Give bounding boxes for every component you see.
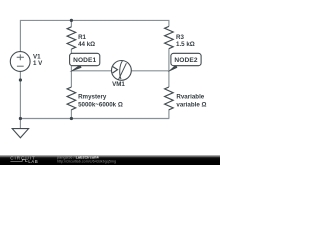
voltmeter VM1 circle bbox=[112, 61, 132, 81]
svg-text:NODE2: NODE2 bbox=[174, 57, 197, 64]
svg-text:Rmystery: Rmystery bbox=[78, 94, 107, 101]
wire top rail from V1 top across to right rail bbox=[20, 20, 169, 51]
wire Rvariable bottom to bottom rail bbox=[168, 109, 170, 118]
svg-text:Rvariable: Rvariable bbox=[176, 94, 204, 101]
wire middle right: VM1 to right rail bbox=[131, 70, 169, 72]
V1 minus sign bbox=[17, 65, 24, 67]
svg-text:http://circuitlab.com/c/643dkb: http://circuitlab.com/c/643dkbgq5mg bbox=[57, 160, 116, 164]
wire R1 top lead bbox=[70, 20, 72, 26]
VM1 needle bbox=[118, 63, 126, 80]
wire left rail below V1 to ground bbox=[19, 71, 21, 128]
wire R1 bottom to Rmystery top through NODE1 bbox=[70, 49, 72, 87]
svg-text:1 V: 1 V bbox=[33, 60, 43, 67]
junction dot below V1 bbox=[19, 78, 22, 81]
V1 plus sign bbox=[17, 54, 24, 60]
node NODE2 flag beak bbox=[168, 64, 178, 72]
wire bottom rail bbox=[20, 118, 169, 120]
svg-text:LAB: LAB bbox=[28, 159, 38, 164]
junction dot bottom left bbox=[19, 117, 22, 120]
resistor R3 zigzag bbox=[165, 26, 174, 48]
VM1 dial arc bbox=[120, 61, 123, 79]
junction dot bottom Rmystery bbox=[70, 117, 73, 120]
node NODE1 flag beak bbox=[69, 64, 81, 72]
ground symbol bbox=[12, 129, 28, 138]
resistor Rvariable zigzag bbox=[165, 87, 174, 110]
svg-text:variable Ω: variable Ω bbox=[176, 102, 206, 109]
wire right rail R3 bottom to Rvariable bbox=[168, 49, 170, 88]
footer watermark bar bbox=[0, 155, 220, 165]
svg-text:R1: R1 bbox=[78, 34, 86, 41]
wire Rmystery bottom lead bbox=[70, 109, 72, 118]
resistor Rmystery zigzag bbox=[67, 87, 76, 110]
resistor R1 zigzag bbox=[67, 27, 76, 49]
svg-text:NODE1: NODE1 bbox=[73, 57, 96, 64]
node NODE2 flag box bbox=[171, 53, 201, 65]
svg-text:1.5 kΩ: 1.5 kΩ bbox=[176, 41, 195, 48]
junction dot top at R1 tap bbox=[70, 19, 73, 22]
CircuitLab logo squarewave bbox=[10, 159, 27, 161]
svg-text:R3: R3 bbox=[176, 34, 184, 41]
node NODE1 flag box bbox=[70, 53, 100, 65]
svg-text:44 kΩ: 44 kΩ bbox=[78, 41, 95, 48]
voltage source V1 circle bbox=[10, 52, 30, 72]
VM1 arrow glyph bbox=[113, 67, 118, 74]
svg-text:5000k~6000k Ω: 5000k~6000k Ω bbox=[78, 102, 123, 109]
svg-text:VM1: VM1 bbox=[112, 81, 125, 88]
wire middle left: NODE1 to VM1 bbox=[71, 70, 111, 72]
